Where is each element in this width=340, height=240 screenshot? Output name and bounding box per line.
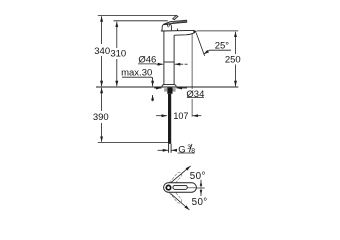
svg-text:340: 340 <box>94 46 110 57</box>
svg-text:390: 390 <box>93 112 109 123</box>
svg-text:25°: 25° <box>215 41 230 52</box>
svg-text:250: 250 <box>225 55 241 66</box>
svg-text:310: 310 <box>110 49 126 60</box>
svg-text:107: 107 <box>173 111 188 121</box>
svg-text:50°: 50° <box>190 171 206 182</box>
svg-text:50°: 50° <box>192 197 208 208</box>
svg-text:G: G <box>178 145 185 156</box>
svg-text:Ø34: Ø34 <box>186 89 204 100</box>
svg-text:8: 8 <box>191 148 195 155</box>
